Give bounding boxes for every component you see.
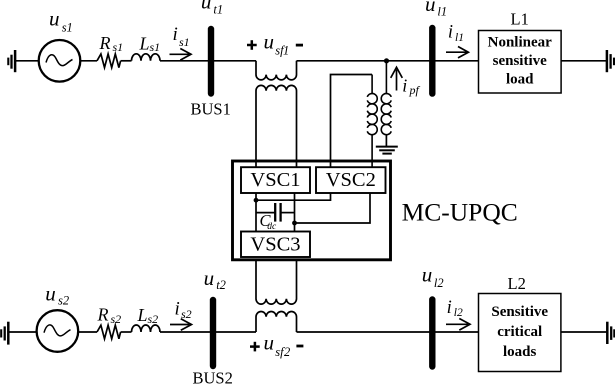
node C dc bus right junction	[292, 221, 297, 226]
svg-text:l1: l1	[455, 32, 464, 44]
svg-text:s1: s1	[113, 40, 124, 54]
svg-text:u: u	[204, 266, 215, 290]
svg-text:dc: dc	[267, 222, 277, 232]
svg-text:s2: s2	[148, 312, 159, 326]
wire dc branch to VSC2 bottom-left pin	[256, 193, 331, 200]
shunt transformer left winding	[367, 75, 377, 168]
wire ground to source us2	[8, 331, 36, 333]
shunt transformer right winding	[381, 61, 391, 135]
svg-text:BUS2: BUS2	[193, 369, 233, 384]
wire VSC1 right DC rail to VSC3	[294, 193, 296, 232]
wire L2 to right ground	[561, 331, 607, 333]
wire dc branch to VSC2 bottom-right pin	[295, 193, 371, 223]
svg-text:critical: critical	[497, 324, 542, 340]
label + usf2 -	[250, 342, 260, 352]
svg-text:l2: l2	[434, 276, 444, 290]
svg-text:l1: l1	[437, 5, 447, 19]
svg-text:i: i	[448, 23, 453, 43]
load box L1	[479, 31, 562, 94]
bus bar BUS2	[210, 300, 216, 366]
svg-text:i: i	[402, 75, 407, 95]
svg-text:i: i	[447, 298, 452, 318]
capacitor Cdc plates	[274, 203, 276, 222]
svg-text:L: L	[137, 305, 148, 325]
svg-text:u: u	[264, 30, 275, 54]
bus bar ul1	[429, 28, 435, 94]
current arrow is1	[170, 53, 190, 55]
wire capacitor right to dc bus	[281, 212, 295, 214]
wire source to resistor Rs1	[80, 60, 97, 62]
node A junction dot on feeder 1	[384, 58, 389, 63]
svg-text:u: u	[49, 7, 60, 31]
resistor Rs2	[97, 325, 121, 339]
svg-text:s1: s1	[62, 21, 73, 35]
MC-UPQC outer box U0	[233, 161, 391, 260]
source us2 sine	[44, 325, 71, 336]
svg-text:L: L	[139, 34, 150, 54]
svg-text:L2: L2	[508, 274, 526, 293]
current arrow il1	[446, 51, 467, 53]
wire T2 to ul2 bus and load	[297, 331, 479, 333]
svg-text:s1: s1	[150, 40, 161, 54]
VSC3 box	[241, 232, 310, 258]
svg-text:R: R	[97, 305, 109, 325]
wire ground to source us1	[15, 60, 38, 62]
svg-text:loads: loads	[503, 344, 537, 360]
inductor Ls2	[132, 325, 161, 332]
svg-text:BUS1: BUS1	[191, 100, 231, 119]
svg-text:l2: l2	[454, 307, 463, 319]
ground G4 left of feeder 2	[1, 322, 8, 345]
current arrow il2	[446, 323, 468, 325]
wire VSC1 left DC rail to VSC3	[255, 193, 257, 232]
wire source to resistor Rs2	[78, 331, 97, 333]
inductor Ls1	[132, 54, 161, 61]
svg-text:Sensitive: Sensitive	[491, 304, 548, 320]
wire Ls2 to BUS2 and transformer T2	[160, 331, 256, 333]
ground G2 right of feeder 1	[607, 50, 614, 72]
svg-text:u: u	[425, 0, 436, 16]
svg-text:s2: s2	[181, 307, 192, 321]
svg-text:pf: pf	[409, 83, 421, 97]
bus bar BUS1	[208, 29, 214, 94]
wire Rs2 to Ls2	[121, 331, 132, 333]
wire L1 to right ground	[561, 60, 607, 62]
svg-text:sensitive: sensitive	[493, 53, 548, 69]
wire Ls1 to BUS1 and to series transformer	[160, 60, 256, 62]
series transformer T1 primary winding	[256, 61, 297, 80]
svg-text:u: u	[422, 263, 433, 287]
svg-text:u: u	[45, 282, 56, 306]
svg-text:load: load	[506, 71, 534, 87]
series transformer T2 primary winding	[256, 311, 297, 332]
svg-text:VSC3: VSC3	[250, 233, 300, 255]
svg-text:2: 2	[284, 345, 290, 359]
ground G1 left of feeder 1	[8, 50, 15, 72]
ground G3 below shunt transformer	[376, 147, 398, 154]
wire shunt winding to ground	[385, 134, 387, 146]
VSC2 box	[316, 167, 386, 193]
bus bar ul2	[429, 300, 435, 367]
current arrow ipf	[396, 70, 398, 91]
VSC1 box	[241, 167, 310, 193]
wire dc bus to capacitor left	[256, 212, 275, 214]
svg-text:VSC2: VSC2	[326, 169, 376, 191]
wire Rs1 to Ls1	[121, 60, 132, 62]
svg-text:t2: t2	[216, 278, 226, 292]
svg-text:s1: s1	[179, 35, 190, 49]
wire shunt left winding to VSC2 top-left pin	[331, 75, 373, 168]
svg-text:i: i	[175, 299, 180, 320]
series transformer T2 secondary winding	[256, 260, 297, 304]
source us1 sine	[46, 55, 73, 66]
svg-text:Nonlinear: Nonlinear	[488, 35, 553, 51]
svg-text:VSC1: VSC1	[250, 169, 300, 191]
node B dc bus left junction	[254, 198, 259, 203]
svg-text:MC-UPQC: MC-UPQC	[402, 198, 518, 227]
label + usf1 -	[247, 40, 257, 50]
svg-text:s2: s2	[111, 312, 122, 326]
load box L2	[479, 294, 561, 372]
series transformer T1 secondary winding	[256, 85, 297, 167]
source us2 circle	[37, 310, 79, 352]
svg-text:u: u	[264, 331, 275, 355]
ground G5 right of feeder 2	[607, 322, 614, 344]
svg-text:s2: s2	[58, 294, 69, 308]
resistor Rs1	[97, 54, 121, 68]
svg-text:1: 1	[283, 44, 289, 58]
svg-text:R: R	[99, 33, 111, 53]
source us1 circle	[39, 40, 81, 82]
svg-text:L1: L1	[511, 9, 529, 28]
svg-text:u: u	[201, 0, 212, 13]
svg-text:i: i	[173, 24, 178, 45]
current arrow is2	[170, 324, 190, 326]
wire T1 to node A and load bus	[297, 60, 479, 62]
svg-text:t1: t1	[213, 3, 223, 17]
